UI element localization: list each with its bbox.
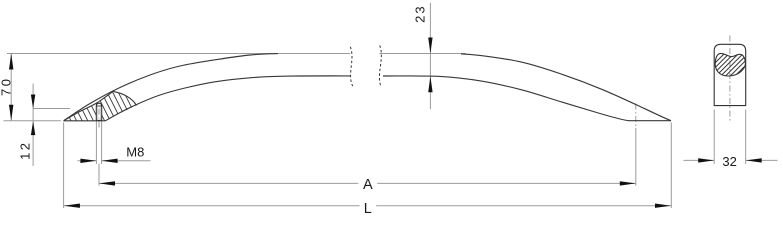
svg-text:M8: M8 — [126, 144, 144, 159]
svg-text:32: 32 — [722, 154, 736, 169]
svg-text:70: 70 — [0, 77, 14, 96]
svg-text:12: 12 — [18, 140, 33, 159]
svg-text:23: 23 — [412, 4, 427, 22]
svg-text:A: A — [363, 177, 373, 193]
svg-text:L: L — [364, 201, 372, 217]
